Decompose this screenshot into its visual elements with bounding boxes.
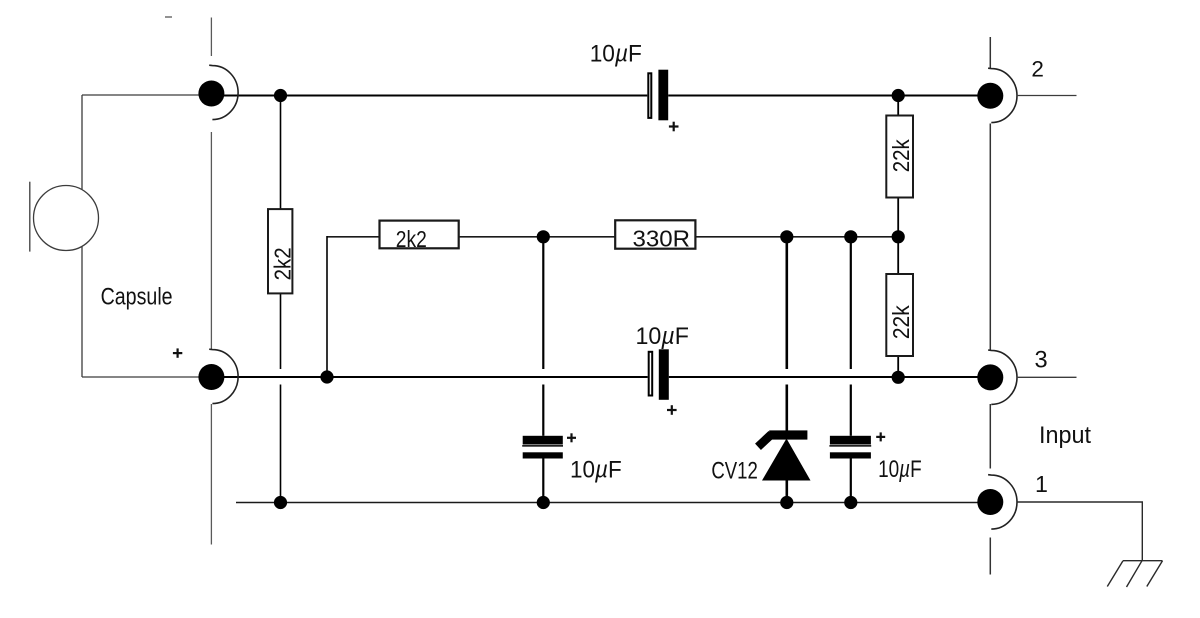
svg-text:1: 1 <box>1035 471 1048 497</box>
junction dot bottom row at R1 <box>274 496 287 509</box>
resistor R4 22k (upper) <box>886 116 913 198</box>
junction dot bottom row at D1 <box>780 496 793 509</box>
junction dot top row at R1 <box>274 89 287 102</box>
XLR body boundary dashed line (right, through pins 2,3,1) <box>989 37 991 575</box>
wire: middle resistor row <box>327 236 898 238</box>
connector contact (capsule return, left) <box>198 364 224 390</box>
connector contact (capsule hot, top left) <box>198 81 224 107</box>
junction dot bottom row at C4 <box>844 496 857 509</box>
resistor R5 22k (lower) <box>886 274 913 356</box>
stub wire right of pin 2 <box>1017 95 1077 97</box>
wire: vertical through R4/R5 22k (x=898.2) <box>897 96 899 378</box>
XLR pin 1 <box>977 489 1003 515</box>
svg-text:22k: 22k <box>888 305 914 339</box>
junction dot bottom row at C3 <box>537 496 550 509</box>
capacitor C2 10uF (pin 3 row) <box>649 349 677 415</box>
svg-text:3: 3 <box>1035 347 1048 373</box>
wire: vertical through C4 (x=850.8) <box>850 237 852 503</box>
svg-text:10µF: 10µF <box>590 41 642 67</box>
svg-text:10µF: 10µF <box>636 324 689 350</box>
zener diode D1 CV12 <box>758 430 811 480</box>
wire: bottom row (pin 1 net) <box>236 502 990 504</box>
junction dot mid row at R4/R5 <box>892 230 905 243</box>
capacitor C4 10uF (bottom right, polarized) <box>829 432 885 458</box>
junction dot pin3 row at corner <box>320 370 333 383</box>
svg-text:2k2: 2k2 <box>269 247 295 280</box>
XLR pin 2 <box>977 83 1003 109</box>
wire: top row (node 2 net) <box>211 95 990 97</box>
stray dash top left <box>165 16 172 18</box>
wire: vertical through C3 (x=543.3) <box>542 237 544 503</box>
stub wire right of pin 3 <box>1017 376 1077 378</box>
resistor R2 2k2 (horizontal) <box>380 221 459 249</box>
svg-text:2k2: 2k2 <box>396 226 427 252</box>
ground symbol <box>1107 561 1162 587</box>
wire: vertical through D1 CV12 (x=786.8) <box>785 237 788 503</box>
resistor R1 2k2 (vertical) <box>268 209 292 293</box>
junction dot top row at R4 <box>892 89 905 102</box>
wire: pin 3 row <box>211 376 990 378</box>
microphone capsule <box>34 186 99 251</box>
svg-text:Capsule: Capsule <box>101 284 173 311</box>
junction dot mid row at D1 <box>780 230 793 243</box>
svg-text:10µF: 10µF <box>878 457 922 483</box>
capsule loop wire (top segment) <box>82 94 205 96</box>
svg-text:22k: 22k <box>888 139 914 172</box>
mic body boundary dashed line (left, through connectors) <box>210 18 212 545</box>
capsule diaphragm line <box>29 182 31 252</box>
svg-text:Input: Input <box>1039 422 1091 449</box>
wire: vertical through R1 2k2 (x=280.5) <box>280 96 282 503</box>
capacitor C3 10uF (bottom left, polarized) <box>522 433 576 458</box>
svg-text:10µF: 10µF <box>570 457 622 483</box>
capsule plus sign <box>173 348 182 357</box>
svg-text:CV12: CV12 <box>711 458 757 485</box>
capsule loop wire (left vertical segment) <box>81 95 83 377</box>
junction dot pin3 row at R5 <box>892 371 905 384</box>
wire: corner from R2 2k2 down to pin3 row (x=327) <box>326 236 328 377</box>
capacitor C1 10uF (top row) <box>648 70 678 132</box>
svg-text:2: 2 <box>1031 57 1044 82</box>
junction dot mid row at C3 <box>537 230 550 243</box>
resistor R3 330R <box>615 220 695 248</box>
XLR pin 3 <box>977 364 1003 390</box>
wire pin 1 to ground <box>1017 502 1143 561</box>
capsule loop wire (bottom segment) <box>82 376 205 378</box>
junction dot mid row at C4 <box>844 230 857 243</box>
svg-text:330R: 330R <box>633 226 691 252</box>
